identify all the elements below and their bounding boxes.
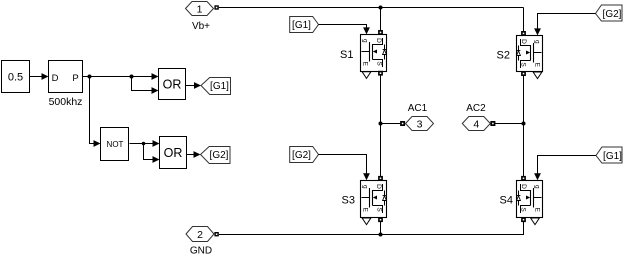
svg-text:NOT: NOT	[107, 140, 124, 149]
svg-text:S2: S2	[497, 50, 510, 62]
svg-text:E: E	[361, 62, 368, 67]
svg-text:[G1]: [G1]	[603, 151, 622, 162]
svg-text:S: S	[519, 207, 526, 212]
svg-text:OR: OR	[163, 77, 182, 91]
svg-text:S1: S1	[340, 49, 353, 61]
svg-text:[G2]: [G2]	[603, 9, 622, 20]
svg-text:Vb+: Vb+	[192, 21, 210, 32]
svg-text:D: D	[375, 38, 382, 43]
svg-text:E: E	[533, 63, 540, 68]
svg-text:S: S	[519, 62, 526, 67]
svg-text:OR: OR	[164, 146, 183, 160]
svg-text:AC1: AC1	[408, 103, 428, 114]
svg-text:[G1]: [G1]	[292, 20, 311, 31]
svg-text:[G1]: [G1]	[210, 81, 229, 92]
svg-text:3: 3	[417, 118, 423, 130]
svg-text:500khz: 500khz	[49, 96, 83, 108]
svg-text:GND: GND	[190, 246, 212, 256]
svg-text:D: D	[375, 184, 382, 189]
svg-text:S: S	[375, 61, 382, 66]
svg-text:E: E	[361, 208, 368, 213]
svg-text:D: D	[52, 73, 59, 84]
svg-text:g: g	[533, 185, 540, 189]
svg-text:[G2]: [G2]	[210, 150, 229, 161]
svg-text:1: 1	[197, 3, 203, 15]
svg-text:g: g	[361, 185, 368, 189]
svg-text:[G2]: [G2]	[292, 150, 311, 161]
svg-text:4: 4	[473, 118, 479, 130]
svg-text:S4: S4	[500, 195, 513, 207]
svg-text:D: D	[520, 184, 527, 189]
svg-text:g: g	[533, 40, 540, 44]
svg-text:S: S	[375, 207, 382, 212]
svg-text:AC2: AC2	[466, 103, 486, 114]
svg-text:E: E	[533, 208, 540, 213]
svg-text:g: g	[361, 39, 368, 43]
svg-text:2: 2	[197, 229, 203, 241]
svg-text:P: P	[72, 73, 78, 84]
svg-text:S3: S3	[342, 195, 355, 207]
svg-text:D: D	[520, 39, 527, 44]
svg-text:0.5: 0.5	[8, 72, 23, 84]
